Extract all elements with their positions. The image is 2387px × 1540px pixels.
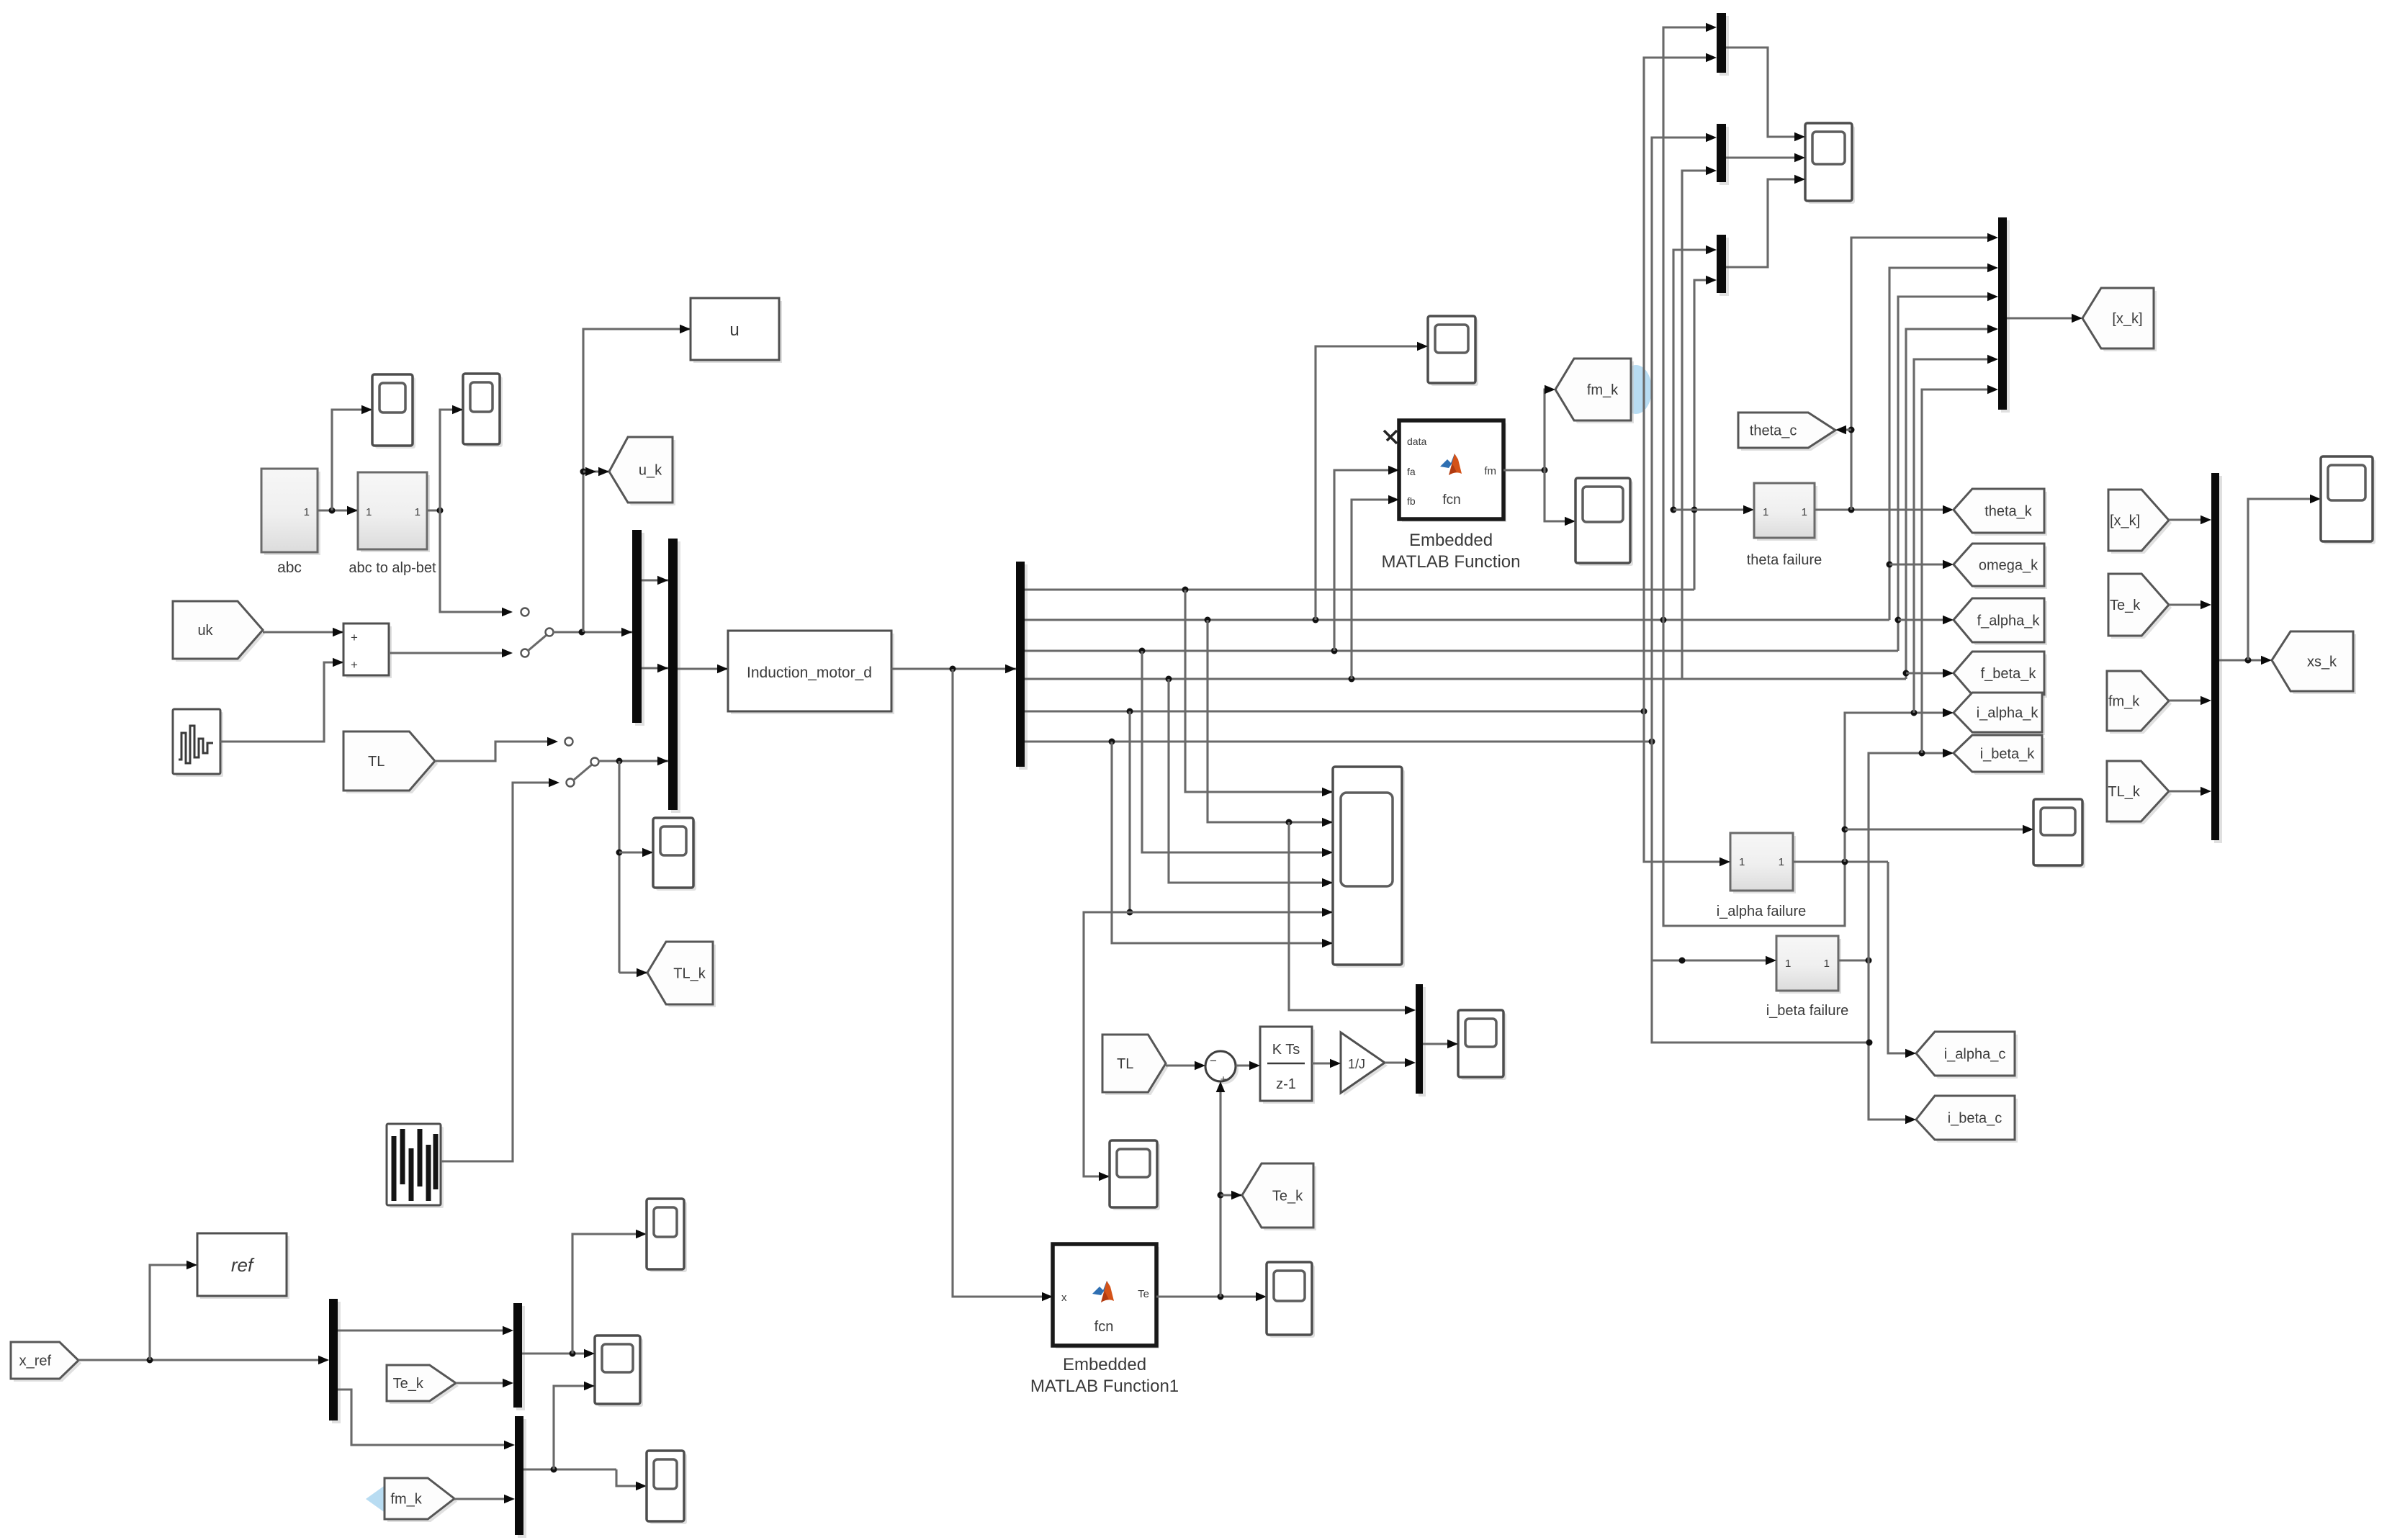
mux bar 2 (state mux) [668,539,680,813]
svg-text:theta_c: theta_c [1750,423,1797,439]
wire abc node up to Scope1 [332,405,372,510]
terminator block ref [197,1233,289,1299]
wire TL to sum [1166,1061,1205,1071]
wire omega branch down to torque mux input 1 [1289,822,1416,1014]
goto tag TL_k [647,942,716,1007]
sum junction circle (TL - Te) [1205,1051,1239,1086]
wire i_beta failure output up to i_beta_k with mux riser [1838,385,1998,964]
svg-text:i_alpha_k: i_alpha_k [1977,706,2039,721]
wire alp-bet output node up to Scope2 and down to switch upper terminal [427,405,529,617]
svg-text:fb: fb [1407,495,1416,507]
svg-text:TL: TL [1117,1056,1133,1072]
svg-text:z-1: z-1 [1276,1076,1296,1092]
svg-text:Te: Te [1138,1288,1149,1300]
wire f_beta riser up to f_beta_k and mux D input 4 [1903,325,1999,679]
svg-text:x: x [1061,1292,1067,1304]
wire fm output to fm_k tag and scope [1503,385,1575,526]
svg-text:abc to alp-bet: abc to alp-bet [349,560,436,576]
wire i_alpha node to scope [1845,825,2033,834]
wire theta line from demux [1025,587,1694,593]
scope ref vs output (2 inputs) [595,1336,643,1407]
wire Te output with junctions [1156,1292,1267,1302]
wire ref demux output 1 to mux G [338,1326,513,1336]
svg-text:data: data [1407,436,1426,447]
svg-text:Te_k: Te_k [1272,1189,1303,1204]
from tag TL (torque) [1102,1035,1169,1095]
goto tag f_alpha_k [1954,598,2047,645]
scope torque [1458,1010,1506,1080]
scope omega above EMF [1428,316,1478,386]
goto tag omega_k [1954,544,2047,589]
wire TL to manual switch 2 upper terminal [435,737,573,761]
wire theta failure input riser to mux C input 1 [1671,246,1717,513]
wire omega line from demux [1025,617,1889,623]
svg-text:Embedded: Embedded [1063,1355,1146,1374]
svg-text:theta failure: theta failure [1747,552,1822,568]
Embedded MATLAB Function block [1382,420,1521,572]
svg-text:fm: fm [1484,465,1496,477]
svg-text:K Ts: K Ts [1272,1042,1300,1058]
wire signal generator to Add input 2 [220,658,343,742]
svg-text:fcn: fcn [1094,1319,1114,1335]
wire Te_k to mux E [2169,600,2211,610]
goto tag f_beta_k [1954,652,2047,698]
scope fm [1575,478,1633,566]
wire Add output to manual switch 1 lower terminal [389,649,529,658]
wire pulse source up to manual switch 2 lower terminal [441,778,575,1161]
svg-text:f_beta_k: f_beta_k [1981,666,2037,682]
svg-text:fm_k: fm_k [390,1492,422,1508]
subsystem block Induction_motor_d [728,631,894,714]
scope output right [2321,456,2375,544]
mux bar top B [1717,124,1729,185]
unconnected data port cross mark [1384,431,1397,443]
mux bar I [515,1416,526,1538]
svg-text:1: 1 [1739,856,1745,868]
wire f_beta drop to scope input 4 [1169,679,1333,887]
wire theta riser to mux C input 2 and theta failure input [1673,276,1754,590]
mux bar 1 (u demux) [632,530,644,726]
from tag x_ref [11,1342,81,1382]
wire mux B output to scope input 2 [1726,153,1805,163]
mux bar top C [1717,235,1729,296]
svg-text:1: 1 [1824,958,1830,970]
goto tag Te_k (torque) [1242,1163,1316,1230]
wire f_alpha tap up to fa input [1334,466,1399,651]
wire [x_k] to mux E [2169,515,2211,525]
wire TL_k to mux E [2169,787,2211,796]
wire i_alpha failure output wrap loop to mux A input 1 [1663,23,1845,926]
svg-text:omega_k: omega_k [1979,558,2038,574]
signal generator block (band-limited noise) [173,709,223,777]
wire f_alpha line from demux [1025,648,1898,654]
wire mux G output to scope with branch up [522,1230,647,1359]
wire switch node up to u block [583,325,691,632]
wire bar2 to Induction_motor_d [678,665,728,674]
subsystem block i_alpha failure [1717,833,1807,919]
goto tag i_beta_k [1954,735,2045,775]
scope i_alpha small [1110,1140,1160,1210]
wire TL node down to Scope TL [616,761,654,973]
subsystem block abc [261,469,320,576]
wire ref demux output 2 to mux I [338,1390,515,1449]
from tag [x_k] right column [2108,490,2172,554]
wire i_beta drop to scope input 6 [1112,742,1333,947]
wire Induction_motor_d output to state demux with branch down [891,665,1016,674]
wire junction into u_k tag [580,467,610,477]
wire uk to Add input 1 [263,628,343,637]
goto tag xs_k [2272,631,2356,694]
wire omega tap up to scope [1316,342,1428,620]
discrete transfer block K Ts/z-1 [1260,1027,1315,1104]
wire f_alpha drop to scope input 3 [1142,651,1333,857]
svg-text:1: 1 [1802,506,1807,518]
wire mux E output to xs_k with scope branch [2219,495,2321,665]
wire gain to torque mux [1385,1058,1416,1068]
svg-text:1: 1 [415,506,421,518]
subsystem block i_beta failure [1766,936,1849,1019]
mux bar G [513,1303,525,1410]
svg-text:u: u [729,320,739,340]
subsystem block abc to alp-bet [349,472,436,576]
goto tag u_k [609,437,675,505]
wire i_alpha line down to i_alpha failure input [1644,711,1730,866]
scope Scope TL [653,818,696,891]
wire omega drop to scope input 2 with branch to torque mux [1208,620,1333,827]
from tag uk [173,601,266,662]
goto tag i_alpha_c [1916,1032,2018,1079]
mux bar E (output mux) [2211,473,2222,843]
wire i_alpha drop to scope input 5 and small scope [1084,711,1333,1181]
demux bar ref [329,1299,341,1423]
svg-text:u_k: u_k [639,463,662,479]
goto tag theta_k [1954,489,2047,536]
gain block 1/J [1341,1032,1388,1096]
svg-text:+: + [351,658,358,672]
from tag TL_k right column [2107,761,2172,824]
mux bar D (k signals) [1998,217,2010,413]
manual switch 1 lever and output node [528,628,632,651]
svg-text:TL: TL [368,754,385,770]
goto tag fm_k with highlight [1555,359,1652,423]
wire i_alpha riser to mux A input 2 [1644,53,1717,711]
scope Te small [1267,1262,1315,1338]
svg-text:i_beta_c: i_beta_c [1948,1111,2002,1127]
svg-text:[x_k]: [x_k] [2110,513,2140,529]
wire state branch down to Embedded MATLAB Function1 x input [953,669,1053,1301]
Embedded MATLAB Function1 block [1030,1244,1179,1396]
goto tag i_beta_c [1916,1096,2018,1143]
wire f_alpha riser up to f_alpha_k and mux D input 3 [1895,292,1999,651]
svg-text:Embedded: Embedded [1409,531,1493,550]
wire Te_k to mux G [456,1379,513,1388]
svg-text:abc: abc [277,559,302,576]
scope upper small [647,1199,687,1272]
svg-text:ref: ref [231,1254,255,1276]
wire sum to K Ts block [1236,1061,1260,1071]
svg-text:−: − [1210,1054,1217,1068]
wire mux I output to scopes [523,1382,647,1491]
subsystem block theta failure [1747,483,1822,568]
wire f_beta tap up to fb input [1352,495,1399,679]
wire mux A output to scope input 1 [1726,48,1805,141]
wire torque mux to scope [1423,1040,1458,1049]
from tag fm_k bottom with highlight [366,1478,457,1522]
svg-text:Te_k: Te_k [393,1376,424,1392]
mux bar top A [1717,13,1729,76]
wire i_beta riser to mux B input 1 [1652,133,1717,742]
goto tag i_alpha_k [1954,693,2045,735]
wire bar1 to bar2 upper [642,576,668,585]
wire i_alpha line from demux [1025,708,1647,715]
svg-text:xs_k: xs_k [2307,654,2337,670]
wire Te node up to Te_k tag and sum minus input [1216,1081,1242,1297]
svg-text:i_alpha_c: i_alpha_c [1944,1047,2006,1063]
wire mux C output to scope input 3 [1726,175,1805,267]
svg-text:1: 1 [1785,958,1791,970]
svg-text:fm_k: fm_k [1587,382,1619,398]
svg-text:x_ref: x_ref [19,1354,52,1369]
from tag TL [343,731,438,793]
goto tag [x_k] [2082,288,2157,351]
svg-text:1/J: 1/J [1348,1057,1365,1071]
svg-text:i_alpha failure: i_alpha failure [1717,904,1807,919]
wire x_ref to demux with ref branch [78,1261,329,1365]
wire f_beta line from demux [1025,676,1906,683]
scope i_alpha right [2033,799,2085,868]
wire mux D output to [x_k] [2007,314,2082,323]
from tag Te_k bottom [387,1365,459,1404]
wire f_beta riser to mux B input 2 [1682,166,1717,679]
wire fm_k to mux I [454,1495,515,1504]
from tag fm_k right column [2107,671,2172,734]
mux bar torque scope [1416,984,1426,1097]
scope top right (3 inputs) [1805,123,1855,204]
terminator block u [691,298,782,363]
wire i_beta line down to i_beta failure input [1652,742,1776,965]
svg-text:fm_k: fm_k [2108,694,2140,710]
wire lower cross link [1652,960,1873,1046]
demux bar states (6 outputs) [1016,562,1028,770]
wire theta drop to scope input 1 [1185,590,1333,796]
svg-text:TL_k: TL_k [2108,784,2140,800]
svg-text:1: 1 [1763,506,1768,518]
scope Scope1 (abc signal) [372,374,415,449]
wire abc output to abc-to-alp-bet input [318,506,358,515]
svg-text:fcn: fcn [1442,492,1460,508]
wire theta failure output to theta_k with theta_c branch and mux D riser [1815,233,1998,515]
svg-text:1: 1 [1779,856,1784,868]
wire bar1 to bar2 lower [642,664,668,673]
svg-text:MATLAB Function: MATLAB Function [1382,552,1521,572]
svg-text:+: + [351,631,358,644]
svg-text:TL_k: TL_k [673,966,706,982]
scope lower small [647,1451,687,1524]
sum block Add [343,623,392,678]
wire i_alpha failure output down to i_alpha_c [1888,862,1916,1058]
wire i_beta line from demux [1025,739,1655,745]
manual switch 2 lever and output to bar2 [573,757,668,780]
svg-text:fa: fa [1407,466,1416,477]
svg-text:1: 1 [304,506,310,518]
pulse source block (load torque profile) [387,1124,444,1208]
wire i_alpha failure output up to i_alpha_k with scope and mux riser [1793,355,1998,865]
svg-text:uk: uk [197,623,213,639]
from tag Te_k right column [2108,574,2172,639]
svg-text:theta_k: theta_k [1984,504,2033,520]
wire i_beta failure output down to i_beta_c [1869,960,1916,1124]
goto tag theta_c [1738,413,1838,451]
wire K Ts to gain [1312,1059,1341,1068]
wire into TL_k tag [619,968,647,978]
svg-text:Induction_motor_d: Induction_motor_d [747,665,872,681]
svg-text:f_alpha_k: f_alpha_k [1977,613,2041,629]
wire omega riser up to omega_k and mux D input 2 [1887,264,1999,620]
svg-text:1: 1 [366,506,372,518]
svg-text:MATLAB Function1: MATLAB Function1 [1030,1377,1179,1396]
svg-text:[x_k]: [x_k] [2112,311,2142,327]
svg-text:i_beta_k: i_beta_k [1980,747,2036,762]
svg-text:Te_k: Te_k [2110,598,2141,613]
wire fm_k to mux E [2169,696,2211,706]
scope states (6 inputs) [1333,767,1405,968]
scope Scope2 (alp-bet signal) [463,374,503,447]
svg-text:i_beta failure: i_beta failure [1766,1003,1849,1019]
